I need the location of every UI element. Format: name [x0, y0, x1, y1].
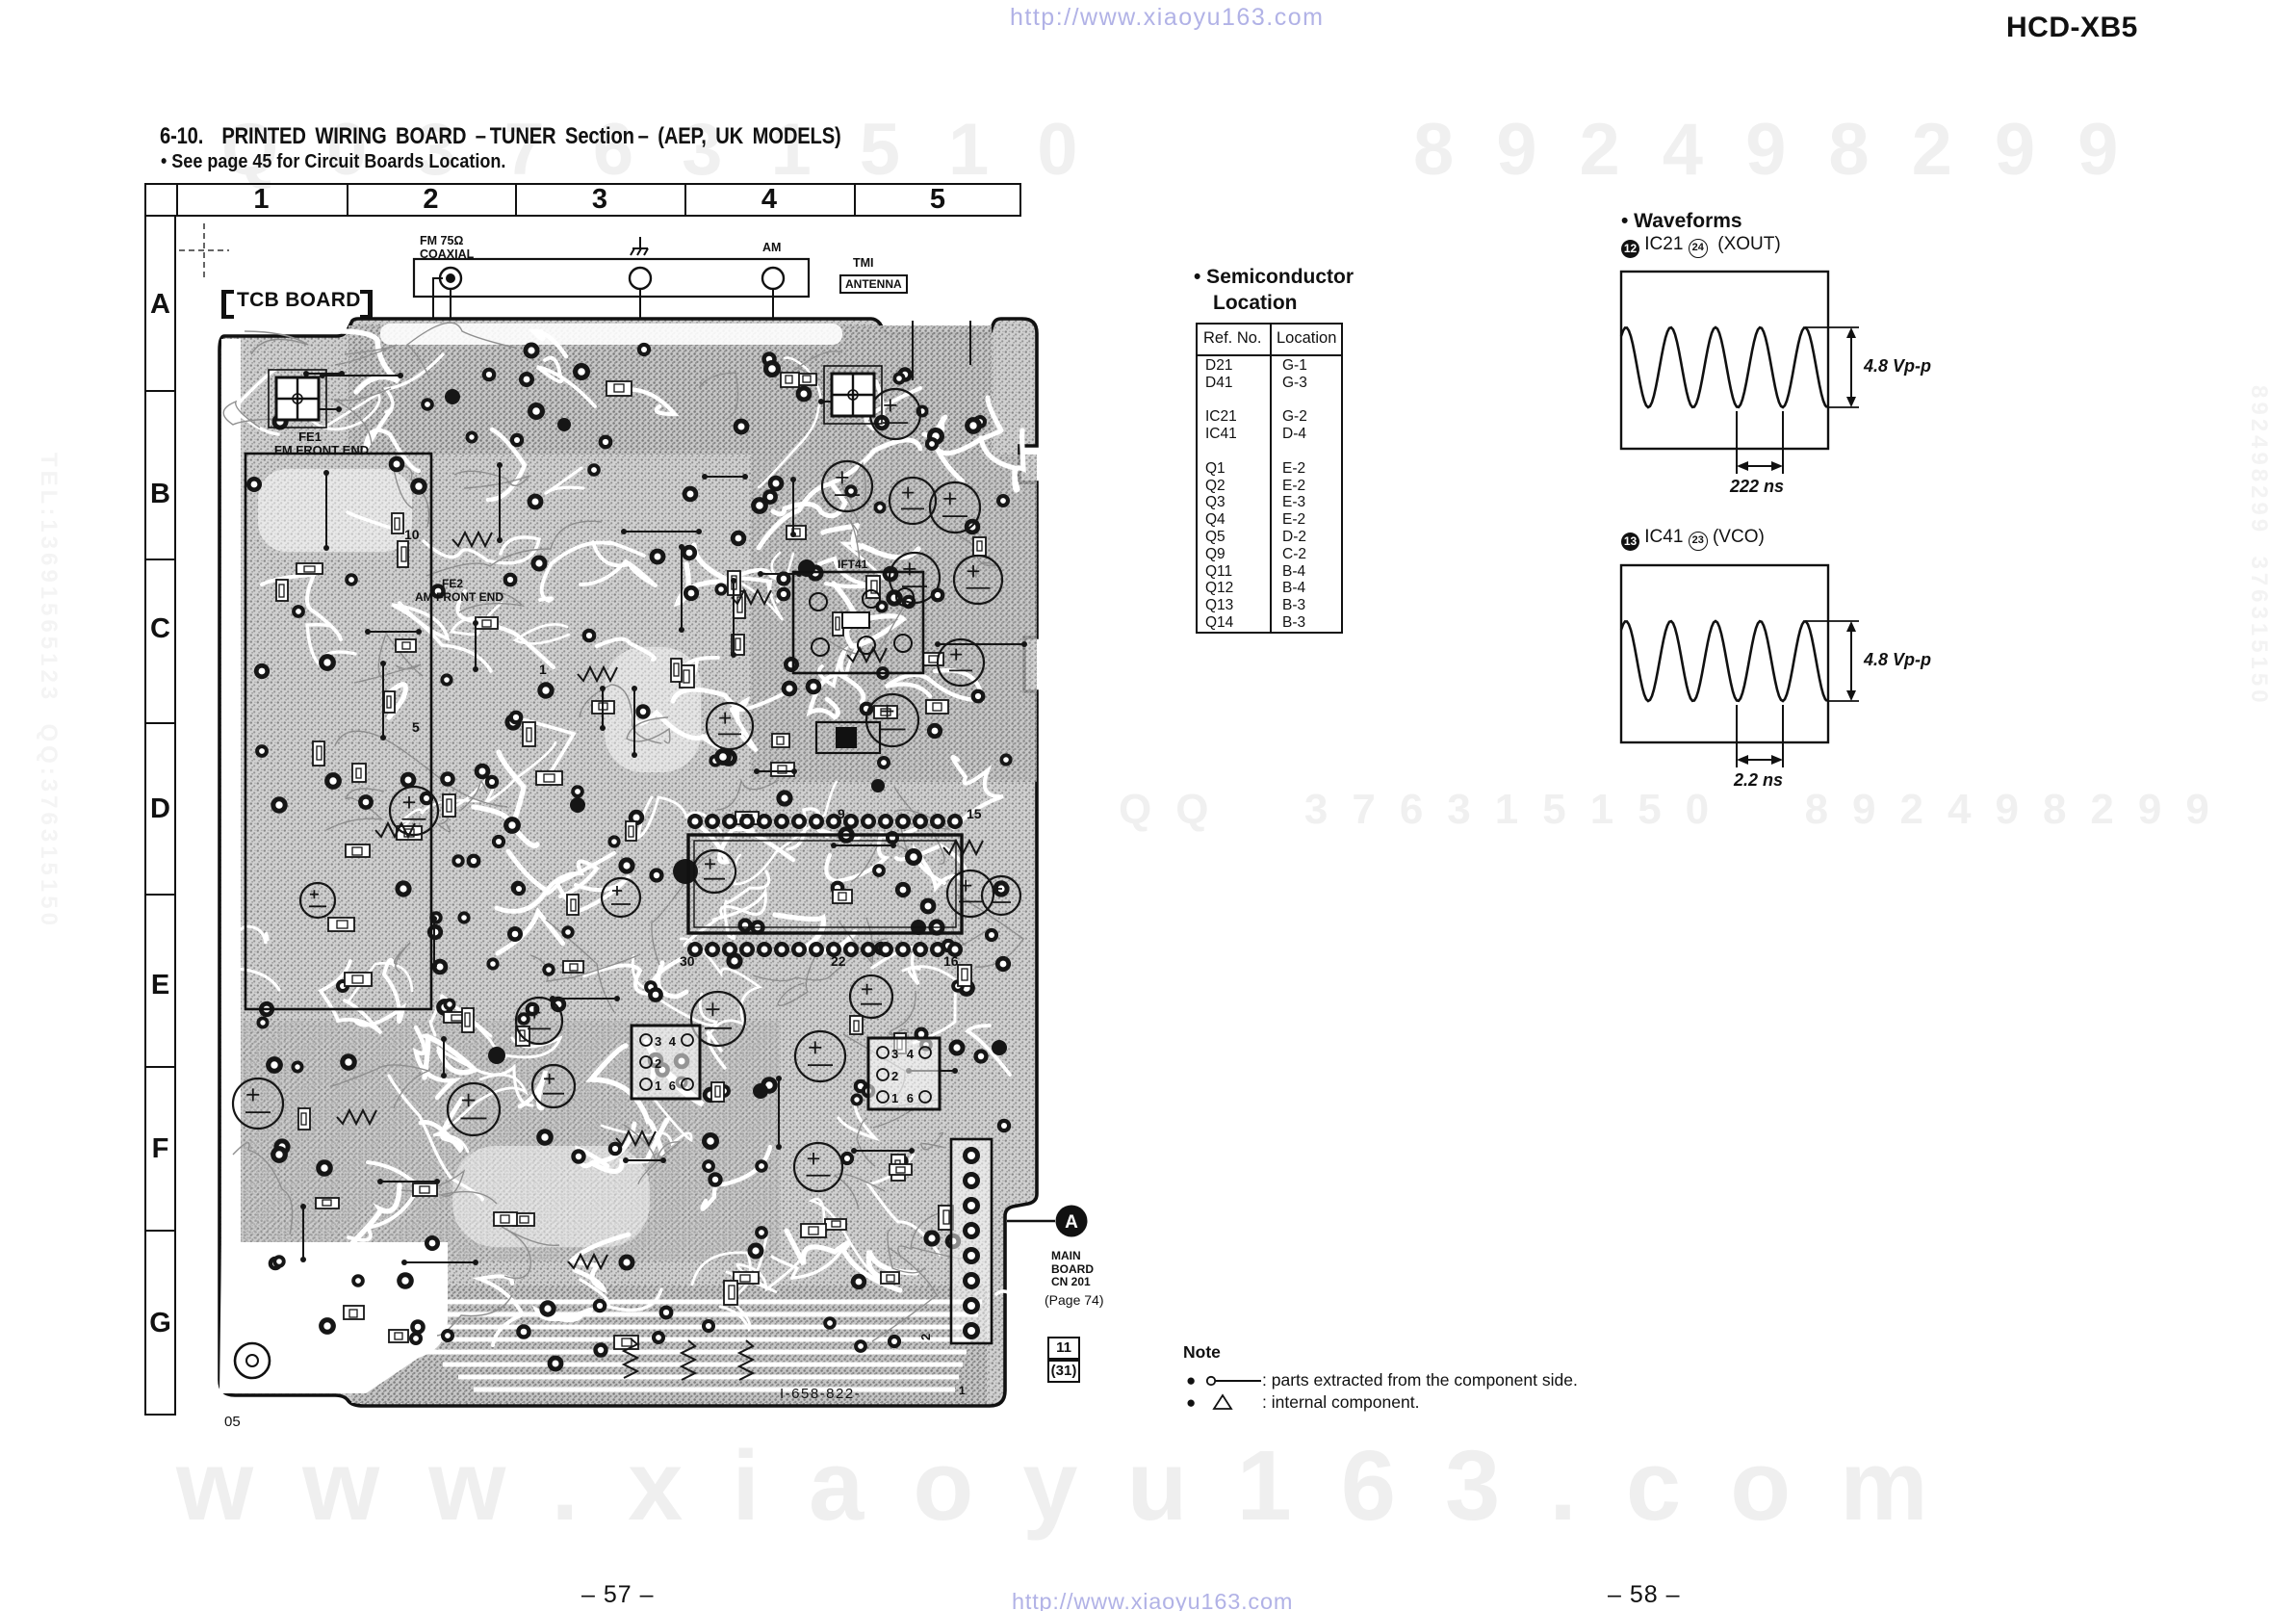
junction dots	[445, 389, 1007, 1099]
label TMI	[853, 256, 874, 270]
section title	[160, 123, 841, 150]
FM 75 ohm coaxial jack	[440, 268, 461, 289]
waveform IC21 XOUT	[1621, 272, 1828, 449]
model number	[2006, 12, 2138, 44]
connector CN-to-main strip	[951, 1139, 992, 1343]
registration cross	[179, 223, 229, 277]
IC21 outline	[688, 835, 962, 933]
small chip components	[276, 373, 986, 1349]
AM terminal	[762, 268, 784, 289]
ground symbol	[631, 237, 648, 255]
note heading	[1183, 1342, 1221, 1363]
faint digits top right	[1413, 108, 2160, 192]
wire stubs top right	[913, 321, 970, 380]
page number 58	[1608, 1581, 1681, 1609]
fiducial crosshair left	[269, 370, 326, 428]
board outline TCB board	[219, 319, 1037, 1406]
faint vertical text left	[35, 453, 62, 929]
waveform 1 label	[1621, 234, 1781, 258]
label 11 (31) boxes	[1047, 1337, 1080, 1360]
LPF42 connector box	[632, 1026, 700, 1099]
waveform 2 label	[1621, 527, 1765, 551]
grid row letters	[144, 289, 176, 321]
wire ground terminal to board	[639, 289, 641, 372]
fiducial crosshair right	[824, 366, 882, 424]
resistors (zigzag)	[337, 533, 983, 1380]
label ANTENNA boxed	[839, 274, 908, 294]
waveforms heading	[1621, 210, 1742, 233]
label AM	[762, 241, 781, 254]
board name TCB	[221, 290, 234, 319]
grid column numbers	[176, 184, 347, 216]
wire FM coax to board	[432, 285, 434, 358]
pin number labels	[404, 527, 982, 969]
grid row dividers	[144, 390, 176, 392]
semiconductor location table	[1196, 323, 1343, 634]
IFT41 shield box	[793, 572, 923, 673]
jumper wires	[281, 371, 1027, 1265]
dim label 2.2 ns	[1734, 770, 1783, 791]
faint digits top left	[221, 108, 1126, 192]
via pads scattered	[246, 343, 1013, 1372]
target mark bottom left	[235, 1343, 270, 1378]
semiconductor location heading	[1194, 266, 1354, 289]
FE1 FM front end shield outline	[245, 454, 431, 1009]
note line 2	[1186, 1393, 1196, 1413]
node A callout wire	[1007, 1220, 1055, 1223]
crystal X42	[816, 722, 880, 753]
giant watermark bottom	[176, 1429, 1977, 1543]
note line 1	[1186, 1371, 1196, 1390]
grid column header	[144, 183, 1021, 217]
white trace channels	[232, 331, 1033, 1357]
faint vertical text right	[2245, 385, 2272, 707]
label MAIN BOARD CN201	[1051, 1250, 1094, 1289]
page number 57	[581, 1581, 655, 1609]
white keepout areas	[219, 324, 842, 1393]
dim label 4.8 Vp-p (2)	[1864, 650, 1931, 670]
grid row column	[144, 217, 176, 1416]
dim label 222 ns	[1730, 477, 1784, 497]
ground terminal	[630, 268, 651, 289]
electrolytic capacitors and transistors (circles)	[233, 389, 1020, 1191]
wire AM terminal to board	[772, 289, 774, 372]
dim label 4.8 Vp-p (1)	[1864, 356, 1931, 377]
watermark url top	[1010, 4, 1324, 32]
watermark url bottom	[1012, 1589, 1293, 1611]
node A	[1056, 1206, 1088, 1237]
faint digits middle	[1119, 786, 2233, 834]
bottom parallel traces	[366, 1300, 982, 1305]
trace outlines (thin)	[223, 323, 1023, 1341]
waveform IC41 VCO	[1621, 565, 1828, 742]
copper regions (denser hatch)	[241, 325, 1037, 1403]
label FM 75ohm COAXIAL	[420, 235, 474, 261]
antenna terminal bar	[414, 259, 809, 297]
subtitle	[161, 151, 505, 173]
IC21 pin pads	[687, 814, 703, 829]
LPF41 connector box	[868, 1038, 940, 1109]
